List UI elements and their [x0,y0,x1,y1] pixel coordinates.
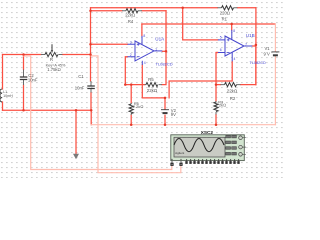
grid background [0,0,284,178]
wire R2 to U1B out corner [255,45,257,85]
U1B plus minus marks [227,39,230,53]
wire scope channel A pale (from C2 node) [24,56,172,170]
svg-text:10mH: 10mH [3,94,13,98]
svg-text:7: 7 [245,42,247,46]
svg-text:6: 6 [220,48,222,52]
svg-text:R5: R5 [148,77,154,82]
svg-text:C1: C1 [78,74,84,79]
scope bottom pin row [185,161,239,164]
svg-text:22kΩ: 22kΩ [125,12,135,17]
svg-text:Agilent: Agilent [175,151,184,155]
wire U1B pin4 route y=80.5 [169,61,232,98]
wire R6 branch x=130.7 [130,85,132,125]
resistor R2 22k horizontal at (220-240, 84.1) [221,84,241,86]
wire U1A out lead red [162,50,166,52]
svg-text:2.2kΩ: 2.2kΩ [216,102,227,107]
svg-text:1: 1 [155,47,157,51]
svg-text:5: 5 [220,36,222,40]
inductor L1 at left edge [0,89,2,102]
svg-text:4: 4 [144,61,146,65]
scope body [171,135,245,161]
wire supply row y=23.5 (pin8) [142,23,276,25]
scope screen [174,137,225,157]
wire right vertical x=255.4 (U1B out to R1/R2) [255,8,257,85]
capacitor C1 at x=90.5 [90,81,92,93]
svg-text:2.2kΩ: 2.2kΩ [133,104,144,109]
wire U1B out lead red [252,45,256,47]
wire left edge vertical x=2 [2,55,4,111]
wire V1 vertical x=274.9 pale [274,24,276,125]
svg-text:R: R [50,57,53,62]
resistor R1 220 horizontal at (217-237, 9) [218,7,238,9]
svg-text:22kΩ: 22kΩ [227,88,237,93]
svg-text:8: 8 [233,29,235,33]
scope input terminal B [179,159,182,166]
wire U1B inverting branch x=215.5 [216,53,218,85]
U1A pin numbers [130,34,157,65]
wire U1A pin8 drop x=141.4 [141,24,143,36]
svg-text:TL082CD: TL082CD [156,62,173,67]
junction node dots [22,7,257,126]
wire U1B pin8 drop [231,24,233,30]
capacitor C2 at x=23 [23,70,25,86]
svg-text:9V: 9V [171,112,176,117]
wire feedback vertical x=165 (U1A out) [162,11,166,85]
wire ground arrow branch x=75.5 [75,110,77,153]
battery V1 9V at x=274.9 [271,52,279,55]
U1B pin numbers [220,29,247,61]
svg-text:U1B: U1B [246,33,255,38]
wire scope channel B pale (from C1 node) [91,56,181,173]
scope knobs [239,136,243,156]
wire R2 row y=84.1 [216,84,256,86]
op-amp U1B [218,30,253,62]
resistor R6 2.2k vertical at x=130.7 [130,103,132,115]
wire C1 branch x=90.5 [90,93,92,125]
wire C2 branch x=23 [23,55,25,111]
resistor R4 22k horizontal at (121.5-141.5, 9) [122,10,142,12]
svg-text:3: 3 [130,41,132,45]
wire U1A inverting branch x=124.8 [125,57,127,85]
wire R3 branch x=215.5 [215,85,217,125]
scope pin stubs dots [186,159,239,161]
oscilloscope XSC1 [170,130,246,166]
svg-text:U1A: U1A [155,37,165,42]
svg-text:V1: V1 [265,46,271,51]
wire U1A pin4 route [142,65,165,98]
wire U1B inverting red stub [216,52,218,54]
svg-text:TL082CD: TL082CD [250,61,267,65]
svg-text:10nF: 10nF [75,86,85,91]
wire left vertical x=90 (node A column) [90,8,92,81]
scope sine trace [174,139,224,152]
svg-text:220Ω: 220Ω [220,10,230,15]
wire pot row y=54 [3,54,91,56]
wire top feedback row y=9 [91,8,256,11]
svg-text:8: 8 [143,34,145,38]
U1A plus minus marks [137,43,140,57]
svg-text:R1: R1 [222,17,228,22]
op-amp U1A [128,36,163,65]
svg-text:R4: R4 [128,19,134,24]
potentiometer R at (40.5-62, 54) [41,54,63,56]
battery V2 9V at x=164.5 [161,110,169,113]
svg-text:22kΩ: 22kΩ [147,88,157,93]
wire R5 left row y=84.1 [125,84,144,86]
svg-text:10nF: 10nF [28,77,38,82]
wire U1B+ branch x=182.2 y=40.2 [183,8,218,40]
svg-text:4: 4 [234,57,236,61]
svg-text:R2: R2 [230,96,236,101]
scope buttons [226,135,237,155]
svg-text:1.75kΩ: 1.75kΩ [47,67,60,72]
resistor R5 22k horizontal at (144-161.5, 84.1) [145,84,163,86]
resistor R3 2.2k vertical at x=215.5 [215,101,217,115]
scope input terminal A [170,159,173,166]
wire V2 branch x=164.5 [164,98,166,125]
wire ground rail y=124.2 pale [91,124,275,126]
pot wiper arrow [51,44,53,50]
wire U1A noninverting input y=43.8 [91,43,128,45]
wire ground row y=109.8 [3,109,92,111]
svg-text:2: 2 [130,53,132,57]
ground arrow at x=75.5 [73,154,79,160]
svg-text:9 V: 9 V [264,51,270,56]
